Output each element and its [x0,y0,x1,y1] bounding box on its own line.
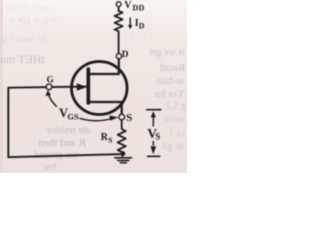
svg-text:tion 5.3 we: tion 5.3 we [6,3,51,14]
svg-text:ate resistor: ate resistor [46,125,90,136]
svg-text:g value of: g value of [2,33,46,45]
svg-text:= ²01 × 2 =: = ²01 × 2 = [8,15,57,27]
svg-text:Vcs for: Vcs for [154,89,184,100]
svg-text:S: S [108,136,112,145]
svg-text:S: S [155,132,160,142]
svg-text:GS: GS [67,112,79,122]
svg-text:no/oc: no/oc [162,114,185,125]
svg-text:bnc: bnc [41,162,56,173]
svg-text:is we get: is we get [149,47,185,58]
svg-text:Recall: Recall [159,63,185,74]
svg-text:DD: DD [133,3,145,12]
svg-text:g 5.2: g 5.2 [166,101,186,112]
svg-text:R and then: R and then [38,137,86,149]
svg-text:ca 1: ca 1 [169,128,185,139]
svg-text:D: D [122,50,129,60]
svg-text:G: G [47,75,54,85]
svg-text:um TƎHt: um TƎHt [0,52,45,66]
svg-text:D: D [139,21,145,30]
svg-text:S: S [126,112,132,124]
svg-text:se-bias: se-bias [156,76,184,87]
svg-text:V: V [124,0,132,11]
svg-text:ac gil: ac gil [162,141,184,152]
svg-text:? x ε =: ? x ε = [130,30,154,40]
